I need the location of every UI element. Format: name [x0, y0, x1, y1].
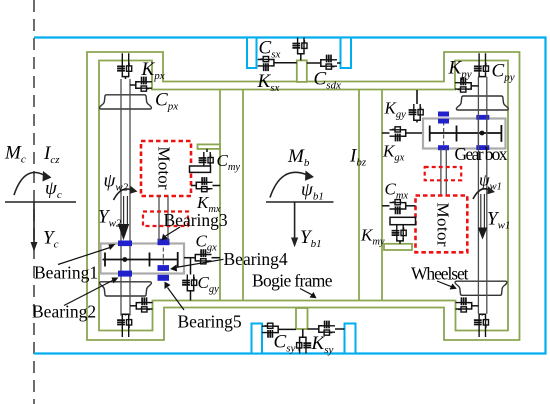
spring K_sx (secondary longitudinal, top center) — [292, 38, 307, 54]
axle wheelset 2 (left) — [121, 79, 130, 316]
wheel right-top — [456, 96, 508, 110]
bogie reference cross bar — [266, 201, 334, 203]
Y_c arrow — [33, 202, 35, 243]
damper C_sx (top, left) — [258, 57, 274, 72]
bogie frame motor bracket left — [198, 144, 221, 149]
wire C_sdx to cyan bracket — [337, 62, 341, 64]
svg-text:Gear box: Gear box — [455, 144, 508, 164]
wire C_mx to wall — [382, 205, 390, 207]
gearbox right (housing) — [423, 119, 506, 149]
leader Wheelset — [437, 281, 452, 287]
gear shaft line — [103, 259, 178, 261]
car body yaw-damper bracket top-right — [341, 38, 352, 69]
wheel right-bottom — [455, 281, 507, 295]
gear tick right — [177, 252, 179, 267]
wire bottom-right damper to cyan bracket — [335, 328, 345, 330]
motor arm left (white) — [190, 166, 211, 172]
car body bracket bottom-left — [252, 324, 263, 354]
bogie frame inner outline (olive) — [99, 61, 508, 331]
attach lines through band — [479, 53, 485, 60]
wire bottom-right damper to bracket — [308, 328, 319, 330]
wire C_my stem — [206, 149, 208, 152]
wire axle to unit — [130, 84, 136, 86]
stem to axle — [125, 314, 127, 315]
wire unit to axle — [471, 85, 478, 87]
car body reference cross bar — [5, 201, 76, 203]
Y_b1 arrow — [294, 202, 296, 239]
primary vertical unit right-top (K_py/C_py) — [474, 60, 489, 76]
spring K_gy — [409, 104, 424, 120]
attach lines through band — [122, 53, 128, 60]
car body yaw-damper bracket top-left — [247, 38, 257, 69]
wire C_gy to bottom beam — [190, 291, 192, 300]
bearing right-motor top upper (blue) — [438, 112, 449, 117]
bearing B1 (blue) — [118, 241, 132, 247]
gear tick mid — [456, 126, 458, 142]
axle through gearbox redrawn — [121, 244, 130, 274]
leader Bearing4 — [176, 259, 224, 267]
wheel left-top — [100, 95, 152, 109]
leader Bearing1 — [58, 248, 110, 265]
primary horizontal unit right-top — [455, 78, 471, 93]
bogie frame wall right-outer — [381, 90, 383, 301]
gear shaft line right — [429, 132, 502, 134]
gear node dot — [122, 257, 127, 262]
wire K_sy to bracket — [302, 329, 304, 337]
attach lines through bottom band right — [479, 331, 485, 338]
stem to axle — [125, 77, 127, 79]
axle wheelset 1 (right) — [478, 77, 486, 314]
attach lines through bottom band — [122, 331, 128, 338]
primary vertical unit left-bottom — [117, 314, 132, 330]
wheel left-bottom — [100, 282, 152, 296]
motor arm right (white) — [390, 217, 416, 224]
Y_w1 arrowhead — [478, 228, 488, 240]
bearing right-axle bottom (blue) — [476, 145, 489, 150]
right shaft bearing highlight box (red dashed) — [425, 167, 462, 180]
wire C_gx to gearbox — [184, 257, 195, 259]
damper C_mx — [390, 200, 406, 215]
gear tick mid — [149, 253, 151, 267]
psi_w1 rotation arrow — [473, 189, 489, 199]
wire K_mx to motor — [191, 185, 196, 187]
car body centerline (dashed) — [33, 0, 35, 404]
leader Bearing2 — [64, 281, 113, 306]
car body bracket bottom-right — [345, 324, 356, 354]
wire C_gy branch — [190, 258, 192, 275]
bogie frame wall left-outer — [219, 90, 221, 301]
wire K_gy to gearbox — [416, 120, 418, 122]
gear centerline dash-dot — [162, 248, 164, 272]
bogie frame outer outline (olive) — [87, 52, 520, 340]
bearing right-axle top (blue) — [476, 115, 489, 120]
primary horizontal unit right-bottom — [456, 297, 472, 312]
wire C_sdx to bracket — [307, 62, 321, 64]
damper C_sdx (top, right) — [321, 55, 337, 70]
spring K_gx — [390, 127, 406, 142]
primary horizontal unit left-bottom — [136, 297, 152, 312]
psi_b1 rotation arrow — [270, 172, 306, 197]
bogie frame bracket top-center — [297, 60, 307, 82]
bearing right-motor top lower (blue) — [438, 119, 449, 124]
wire C_sx to bracket — [275, 62, 297, 64]
bogie frame wall left-inner — [242, 90, 244, 301]
damper C_gx — [195, 249, 211, 264]
damper bottom-right — [319, 321, 335, 336]
bearing3 highlight box (red dashed) — [143, 212, 188, 227]
svg-text:Bearing4: Bearing4 — [224, 249, 288, 269]
bearing B5 (blue) — [158, 275, 170, 281]
wire K_my to bracket — [399, 242, 401, 244]
wire K_gx to wall — [382, 132, 390, 134]
stem to axle — [481, 314, 483, 315]
psi_c rotation arrow — [14, 173, 44, 196]
wire C_gx to wall — [212, 257, 221, 259]
spring K_my — [392, 225, 407, 241]
svg-text:Wheelset: Wheelset — [411, 264, 469, 284]
damper C_my — [199, 152, 214, 168]
primary vertical unit right-bottom — [474, 314, 489, 330]
damper C_sy (bottom, left) — [262, 323, 278, 338]
wire axle to unit — [130, 305, 136, 307]
spring K_sy (secondary lateral, bottom center) — [297, 337, 312, 353]
motor shaft right — [441, 149, 446, 196]
psi_w2 rotation arrow — [114, 189, 132, 200]
Y_w2 arrowhead — [118, 224, 129, 240]
leader Bearing3 — [166, 227, 181, 236]
bogie frame motor bracket right — [384, 244, 412, 250]
bogie frame bracket bottom-center — [296, 308, 308, 329]
bogie frame wall right-inner — [358, 90, 360, 301]
wire K_sx to bracket — [300, 54, 302, 60]
motor M1 (right, red dashed) — [416, 196, 468, 253]
primary vertical unit left-top — [117, 60, 132, 76]
wire K_mx to wall — [213, 185, 221, 187]
spring K_mx — [196, 177, 212, 192]
Y_w2 arrow shaft — [124, 196, 128, 224]
motor M2 (left, red dashed) — [141, 141, 191, 196]
car body outline (cyan) — [34, 38, 546, 354]
wire K_gx to gearbox — [406, 132, 423, 134]
primary horizontal unit K_px/C_px — [136, 77, 152, 92]
svg-text:Bogie frame: Bogie frame — [252, 271, 333, 291]
bearing right-motor bottom (blue) — [438, 145, 449, 150]
gear tick left — [429, 126, 431, 142]
gear tick left — [104, 253, 106, 267]
wire unit to axle — [472, 305, 479, 307]
svg-text:Bearing5: Bearing5 — [178, 312, 242, 332]
Y_w1 arrow shaft — [481, 194, 485, 228]
wire C_mx to motor — [406, 205, 416, 207]
axle through gearbox right — [478, 119, 486, 149]
motor shaft left — [159, 196, 168, 241]
leader Bearing5 — [168, 288, 185, 311]
gear node dot right — [480, 131, 485, 136]
bearing B2 (blue) — [118, 271, 132, 277]
bearing B3 (blue) — [158, 239, 170, 246]
gear centerline dash-dot right — [443, 122, 445, 146]
svg-text:Motor: Motor — [434, 203, 453, 247]
svg-text:Bearing3: Bearing3 — [164, 210, 228, 230]
svg-text:Bearing2: Bearing2 — [32, 302, 96, 322]
wire C_sy to bracket — [279, 328, 296, 330]
gear tick right — [500, 125, 502, 142]
leader Bogie frame — [300, 289, 312, 295]
svg-text:Bearing1: Bearing1 — [34, 263, 98, 283]
bearing B4 (blue) — [158, 265, 170, 271]
damper C_gy — [182, 275, 197, 291]
gearbox left (housing) — [101, 244, 185, 274]
svg-text:Motor: Motor — [155, 147, 174, 190]
wire K_gy stem — [416, 90, 418, 104]
